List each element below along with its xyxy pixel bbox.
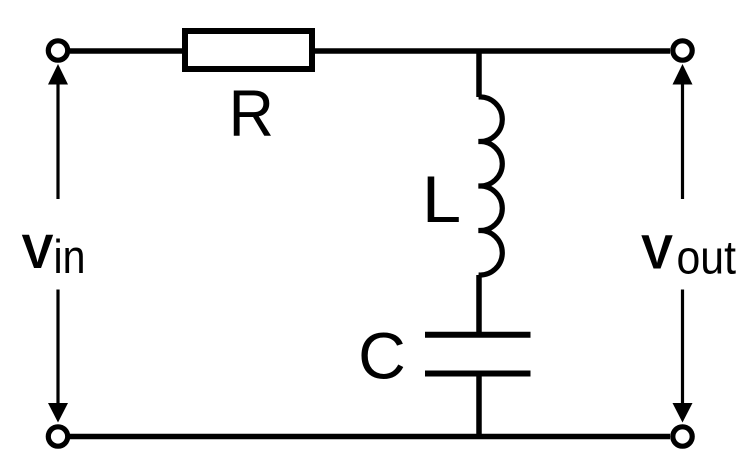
svg-text:V: V bbox=[22, 226, 54, 279]
svg-text:R: R bbox=[229, 77, 274, 151]
svg-text:in: in bbox=[54, 230, 86, 283]
svg-text:C: C bbox=[358, 318, 406, 392]
svg-text:V: V bbox=[641, 227, 673, 280]
svg-text:out: out bbox=[677, 231, 737, 284]
svg-text:L: L bbox=[422, 163, 461, 236]
